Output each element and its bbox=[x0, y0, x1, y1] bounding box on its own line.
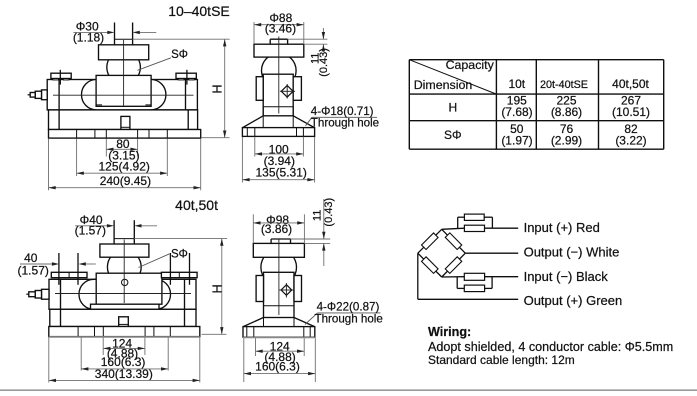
svg-text:H: H bbox=[448, 101, 457, 115]
svg-text:340(13.39): 340(13.39) bbox=[95, 367, 153, 381]
lc2 cable connector bbox=[26, 289, 49, 299]
dimension phi30 bbox=[73, 20, 156, 45]
sv2 crosshair hole bbox=[279, 283, 294, 298]
center vertical axis bbox=[123, 40, 125, 106]
svg-text:SΦ: SΦ bbox=[171, 49, 188, 61]
svg-text:SΦ: SΦ bbox=[444, 128, 462, 142]
svg-text:(0.43): (0.43) bbox=[323, 198, 335, 227]
dimension 11 bottom bbox=[291, 198, 336, 266]
dimension 135 bbox=[242, 137, 314, 183]
dimension 125 bbox=[77, 139, 168, 177]
compensation resistor Rc2 (parallel, Input+) bbox=[464, 214, 484, 220]
svg-text:(2.99): (2.99) bbox=[551, 134, 582, 148]
dimension phi40 bbox=[75, 213, 157, 237]
right bolt bbox=[176, 70, 196, 85]
svg-text:10–40tSE: 10–40tSE bbox=[168, 3, 230, 19]
dimension 80 bbox=[106, 137, 139, 162]
svg-text:Through hole: Through hole bbox=[315, 312, 383, 325]
svg-text:Dimension: Dimension bbox=[414, 78, 473, 92]
sv2 dome bbox=[261, 249, 297, 285]
leader 4-phi22 through hole bbox=[305, 300, 383, 325]
side view left tab bbox=[256, 77, 263, 101]
sv2 foot trapezoid bbox=[243, 306, 314, 327]
lc2 top stem bbox=[114, 220, 134, 244]
lc2 leader S-phi bbox=[139, 249, 188, 268]
lc2 centerline horizontal bbox=[55, 293, 191, 295]
strain gauge R3 (bottom-left arm) bbox=[422, 257, 439, 274]
dimension 160 side bbox=[244, 338, 315, 382]
center tab bbox=[121, 116, 130, 129]
compensation resistor Rc4 (parallel, Input-) bbox=[464, 285, 484, 292]
svg-text:Output (+) Green: Output (+) Green bbox=[524, 293, 623, 308]
svg-text:Capacity: Capacity bbox=[446, 58, 495, 72]
lc2 right bolts bbox=[161, 253, 197, 285]
svg-text:135(5.31): 135(5.31) bbox=[256, 166, 307, 180]
svg-text:20t-40tSE: 20t-40tSE bbox=[540, 79, 588, 91]
sv2 body bbox=[264, 272, 295, 317]
svg-text:Through hole: Through hole bbox=[311, 117, 379, 130]
load cell LC1 top stem bbox=[115, 23, 133, 45]
dimension phi98 bbox=[253, 213, 304, 243]
left bolt bbox=[51, 70, 71, 85]
dimension 100 bbox=[255, 137, 304, 168]
svg-text:Input (+) Red: Input (+) Red bbox=[524, 220, 600, 235]
svg-text:160(6.3): 160(6.3) bbox=[255, 360, 300, 374]
strain gauge R2 (top-right arm) bbox=[445, 233, 461, 250]
dome loading button bbox=[107, 51, 141, 85]
strain gauge R1 (top-left arm) bbox=[422, 233, 439, 250]
cable connector bbox=[28, 90, 48, 100]
lc2 cap plate bbox=[100, 244, 149, 257]
dimension H right bbox=[133, 39, 230, 138]
parallel bracket wires Input- bbox=[457, 277, 492, 289]
side view body bbox=[263, 74, 293, 116]
lc2 center boss bbox=[96, 273, 162, 304]
side view right tab bbox=[293, 77, 301, 101]
svg-text:125(4.92): 125(4.92) bbox=[99, 160, 150, 174]
svg-text:10t: 10t bbox=[508, 77, 525, 91]
lc2 base plate bbox=[49, 327, 200, 337]
svg-text:(8.86): (8.86) bbox=[551, 105, 582, 119]
lc2 lower spacer bbox=[50, 309, 196, 326]
wire right node to Output- line bbox=[465, 252, 518, 254]
dimension 40 bolts bbox=[18, 251, 96, 277]
strain gauge R4 (bottom-right arm) bbox=[445, 257, 462, 274]
lc2 dome button bbox=[107, 250, 141, 284]
wiring notes bbox=[428, 325, 673, 367]
dimension 340 bbox=[49, 338, 200, 383]
svg-text:H: H bbox=[211, 84, 225, 93]
sv2 right tab bbox=[294, 276, 302, 302]
dimension 240 bbox=[49, 139, 201, 190]
svg-text:(1.57): (1.57) bbox=[75, 224, 106, 238]
svg-text:Output (−) White: Output (−) White bbox=[524, 244, 620, 259]
leader 4-phi18 through hole bbox=[306, 105, 380, 130]
lc2 dimension H bbox=[134, 239, 227, 335]
svg-text:40t,50t: 40t,50t bbox=[175, 197, 218, 213]
dimension 124 side bbox=[256, 338, 305, 364]
parallel bracket wires Input+ bbox=[458, 217, 493, 228]
page bottom border bbox=[0, 389, 697, 391]
lc2 left bolts bbox=[51, 253, 87, 285]
leader S-phi bbox=[138, 49, 188, 70]
svg-text:11: 11 bbox=[311, 210, 323, 221]
svg-text:(1.97): (1.97) bbox=[501, 134, 532, 148]
svg-text:(7.68): (7.68) bbox=[501, 105, 532, 119]
wire top node to Input+ line bbox=[442, 228, 519, 229]
bridge edge wire top-right bbox=[442, 229, 466, 253]
svg-text:(3.22): (3.22) bbox=[615, 134, 646, 148]
side view base plate bbox=[242, 128, 314, 137]
main body bbox=[47, 80, 197, 110]
stadium boss bbox=[82, 80, 166, 110]
svg-text:(0.43): (0.43) bbox=[318, 48, 330, 77]
lc2 center tab bbox=[119, 317, 129, 327]
dimension 124 front bbox=[103, 337, 145, 361]
compensation resistor Rc1 (series, Input+) bbox=[464, 225, 484, 231]
capacity table bbox=[409, 58, 663, 149]
svg-text:(1.18): (1.18) bbox=[73, 31, 104, 45]
bridge edge wire top-left bbox=[418, 229, 442, 253]
svg-text:Adopt shielded, 4 conductor ca: Adopt shielded, 4 conductor cable: Φ5.5m… bbox=[428, 340, 673, 354]
svg-text:40t,50t: 40t,50t bbox=[612, 77, 649, 91]
svg-text:Standard cable length: 12m: Standard cable length: 12m bbox=[428, 353, 575, 367]
svg-text:(10.51): (10.51) bbox=[612, 105, 650, 119]
dimension 160 front bbox=[81, 338, 168, 371]
sv2 cap plate bbox=[253, 239, 304, 257]
wire bottom node to Input- line bbox=[442, 276, 519, 278]
side view centerline bbox=[278, 37, 280, 114]
bridge edge wire bottom-right bbox=[442, 253, 466, 277]
dimension 11 top bbox=[288, 28, 330, 77]
svg-text:240(9.45): 240(9.45) bbox=[100, 174, 151, 188]
center boss block bbox=[96, 75, 151, 106]
svg-text:SΦ: SΦ bbox=[171, 249, 188, 261]
sv2 left tab bbox=[256, 276, 263, 302]
lc2 stadium boss bbox=[79, 279, 171, 309]
lc2 boss bottom plate bbox=[91, 304, 160, 309]
horizontal centerline bbox=[53, 94, 194, 96]
lc2 main body bbox=[49, 279, 196, 309]
sv2 centerline bbox=[278, 239, 280, 315]
wire left node to Output+ line bbox=[418, 253, 518, 299]
top cap plate bbox=[99, 45, 149, 60]
lc2 center vertical axis bbox=[123, 240, 125, 304]
side view dome bbox=[262, 53, 297, 88]
svg-text:Wiring:: Wiring: bbox=[428, 325, 471, 339]
sv2 base plate bbox=[243, 327, 315, 338]
compensation resistor Rc3 (series, Input-) bbox=[464, 273, 484, 280]
svg-text:(3.86): (3.86) bbox=[261, 222, 292, 236]
side view cap plate bbox=[254, 39, 304, 57]
lower spacer section bbox=[49, 110, 198, 130]
side view foot trapezoid bbox=[243, 107, 315, 128]
dimension phi88 bbox=[254, 11, 304, 44]
svg-text:H: H bbox=[211, 284, 225, 293]
bridge edge wire bottom-left bbox=[418, 253, 442, 277]
svg-text:Input (−) Black: Input (−) Black bbox=[524, 269, 609, 284]
svg-text:(1.57): (1.57) bbox=[18, 264, 49, 278]
base plate bbox=[49, 130, 201, 139]
svg-text:(3.46): (3.46) bbox=[265, 21, 296, 35]
side view crosshair hole bbox=[280, 84, 295, 99]
